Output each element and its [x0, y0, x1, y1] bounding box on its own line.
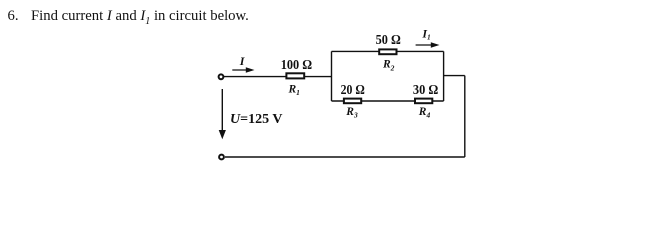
wire right rail vertical [464, 76, 466, 157]
svg-text:R1: R1 [288, 84, 300, 98]
svg-text:R4: R4 [418, 106, 431, 120]
current arrow I head [246, 67, 255, 73]
wire main top (R1 branch) [224, 76, 332, 78]
svg-text:R2: R2 [382, 59, 395, 73]
problem statement text [8, 8, 249, 27]
resistor R3 body [344, 99, 361, 104]
terminal top-left [219, 74, 224, 79]
wire bottom branch (R3 R4) [332, 100, 444, 102]
resistor R2 body [379, 49, 396, 54]
svg-text:I1: I1 [421, 26, 430, 41]
svg-text:R3: R3 [345, 106, 358, 120]
svg-text:30 Ω: 30 Ω [413, 83, 438, 98]
wire parallel-block left vertical [331, 51, 333, 101]
svg-text:100 Ω: 100 Ω [281, 58, 312, 73]
terminal bottom-left [219, 155, 224, 160]
svg-text:I: I [239, 54, 246, 68]
wire parallel-block right vertical [443, 51, 445, 101]
source arrow U head [219, 130, 226, 139]
source arrow U shaft [221, 89, 223, 132]
svg-text:20 Ω: 20 Ω [341, 83, 365, 98]
svg-text:U=125 V: U=125 V [230, 112, 282, 127]
current arrow I shaft [232, 69, 247, 71]
resistor R1 body [286, 73, 304, 78]
wire bottom return [225, 156, 465, 158]
wire top branch (R2) [332, 50, 444, 52]
svg-text:50 Ω: 50 Ω [376, 33, 401, 48]
current arrow I1 shaft [416, 44, 432, 46]
resistor R4 body [415, 99, 432, 104]
current arrow I1 head [431, 42, 440, 48]
wire output stub to right rail [444, 75, 465, 77]
